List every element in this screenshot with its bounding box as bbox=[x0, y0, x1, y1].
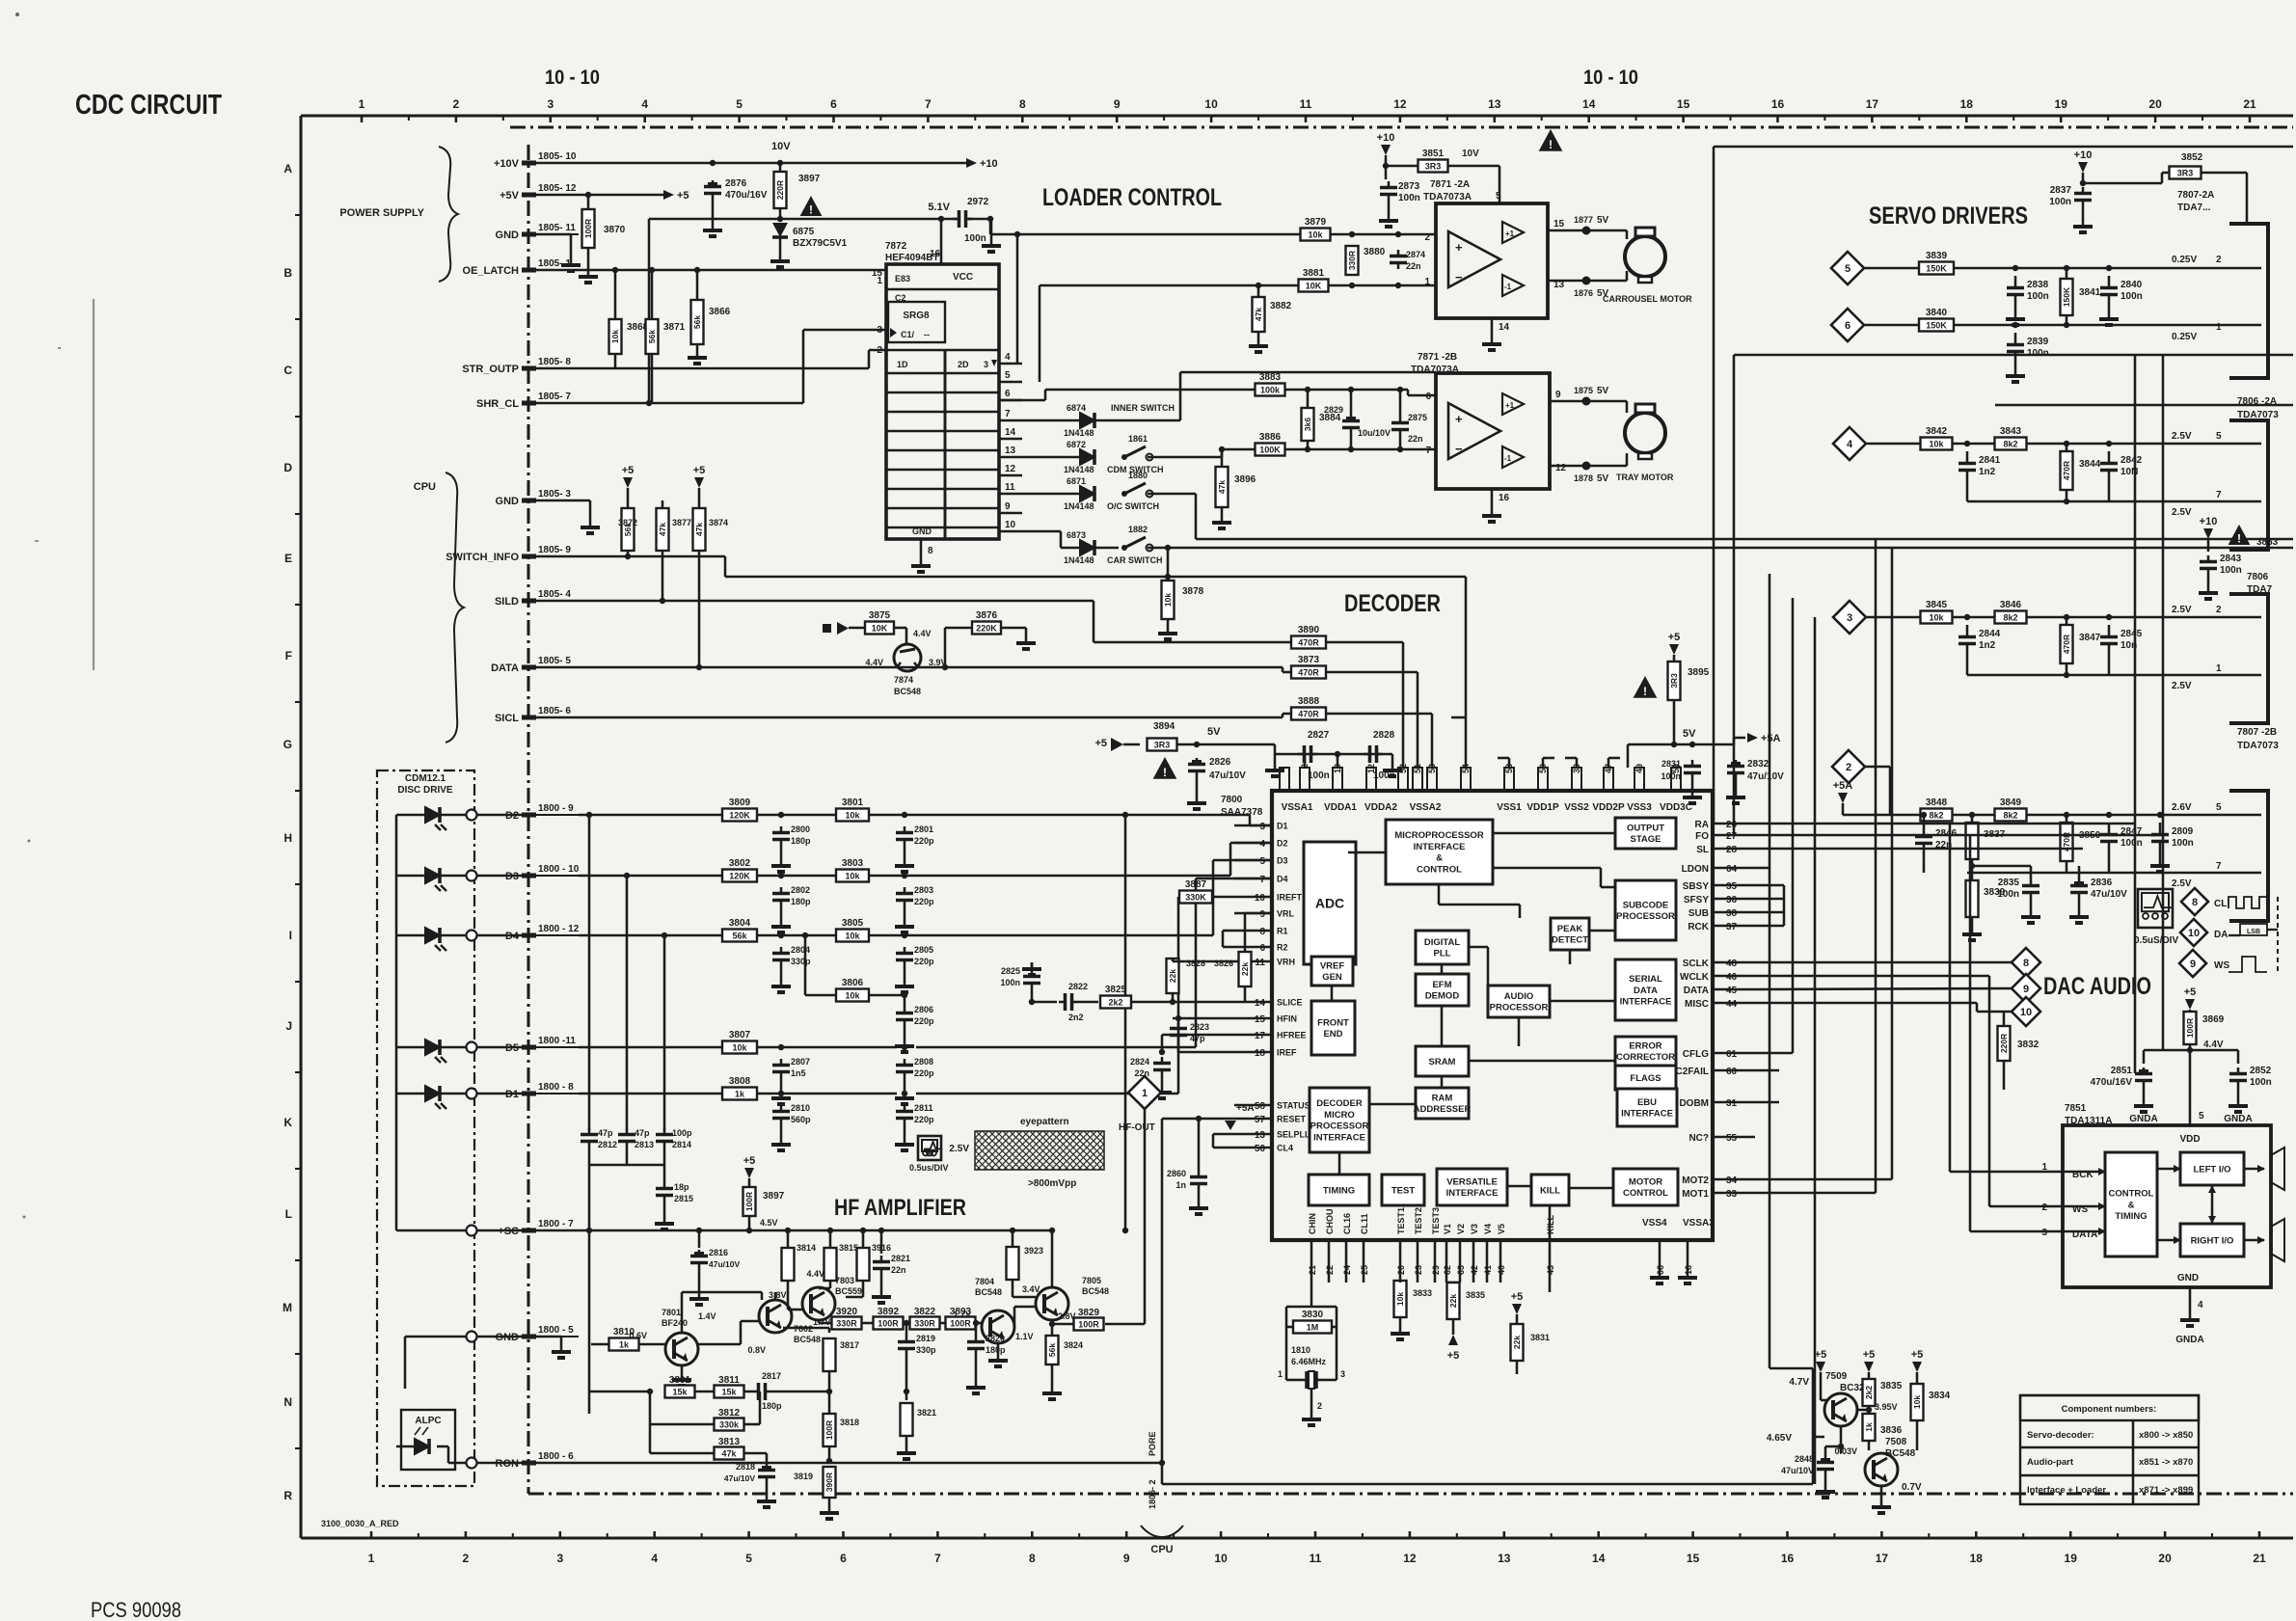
svg-text:100n: 100n bbox=[964, 233, 986, 244]
svg-text:DETECT: DETECT bbox=[1552, 935, 1588, 946]
svg-text:47k: 47k bbox=[658, 523, 667, 536]
svg-text:VCC: VCC bbox=[953, 272, 973, 283]
svg-text:6875: 6875 bbox=[793, 227, 815, 237]
svg-text:VSSA3: VSSA3 bbox=[1683, 1218, 1715, 1229]
svg-text:3R3: 3R3 bbox=[1425, 162, 1442, 172]
svg-text:8k2: 8k2 bbox=[2003, 811, 2017, 821]
svg-text:3892: 3892 bbox=[878, 1307, 900, 1317]
svg-text:2836: 2836 bbox=[2091, 878, 2113, 888]
svg-text:47u/10V: 47u/10V bbox=[1209, 770, 1246, 781]
svg-text:3811: 3811 bbox=[718, 1375, 740, 1386]
svg-text:BC548: BC548 bbox=[894, 687, 921, 696]
svg-text:7806 -2A: 7806 -2A bbox=[2237, 396, 2277, 407]
svg-text:22n: 22n bbox=[891, 1265, 906, 1275]
svg-text:8: 8 bbox=[2023, 958, 2029, 969]
svg-text:1n2: 1n2 bbox=[1979, 640, 1996, 651]
svg-text:1805- 5: 1805- 5 bbox=[538, 656, 571, 666]
svg-text:1n2: 1n2 bbox=[1979, 467, 1996, 477]
svg-text:16: 16 bbox=[1771, 97, 1785, 111]
svg-text:12: 12 bbox=[1005, 464, 1016, 474]
svg-text:SRG8: SRG8 bbox=[903, 311, 930, 321]
svg-text:10 - 10: 10 - 10 bbox=[545, 67, 600, 89]
svg-text:TRAY MOTOR: TRAY MOTOR bbox=[1616, 473, 1674, 482]
svg-text:3873: 3873 bbox=[1298, 655, 1320, 665]
svg-text:3883: 3883 bbox=[1259, 372, 1282, 383]
svg-text:+5: +5 bbox=[622, 465, 635, 476]
svg-text:1810: 1810 bbox=[1291, 1345, 1310, 1355]
svg-text:2: 2 bbox=[463, 1552, 470, 1565]
svg-text:FO: FO bbox=[1695, 831, 1709, 842]
svg-text:16: 16 bbox=[1499, 493, 1510, 503]
svg-text:5: 5 bbox=[736, 97, 743, 111]
svg-text:2843: 2843 bbox=[2220, 554, 2242, 564]
svg-text:35: 35 bbox=[1726, 881, 1738, 892]
svg-text:3: 3 bbox=[556, 1552, 563, 1565]
svg-text:8k2: 8k2 bbox=[2003, 440, 2017, 449]
svg-text:6.46MHz: 6.46MHz bbox=[1291, 1357, 1327, 1366]
svg-text:5: 5 bbox=[1845, 263, 1850, 275]
svg-text:4.4V: 4.4V bbox=[806, 1269, 824, 1279]
svg-text:3866: 3866 bbox=[709, 307, 731, 317]
svg-text:6872: 6872 bbox=[1067, 440, 1086, 449]
svg-text:AUDIO: AUDIO bbox=[1504, 991, 1534, 1002]
svg-text:2972: 2972 bbox=[967, 197, 989, 207]
svg-text:VDD: VDD bbox=[2179, 1134, 2200, 1145]
svg-text:9: 9 bbox=[1123, 1552, 1130, 1565]
svg-text:WS: WS bbox=[2214, 960, 2229, 971]
svg-text:INTERFACE: INTERFACE bbox=[1313, 1132, 1365, 1143]
svg-text:DECODER: DECODER bbox=[1344, 590, 1441, 617]
svg-text:2828: 2828 bbox=[1373, 730, 1395, 741]
svg-text:2844: 2844 bbox=[1979, 629, 2001, 639]
svg-text:53: 53 bbox=[1427, 764, 1437, 773]
svg-text:3812: 3812 bbox=[718, 1408, 741, 1418]
svg-text:14: 14 bbox=[1255, 998, 1266, 1009]
svg-text:18p: 18p bbox=[674, 1182, 689, 1192]
svg-text:−: − bbox=[1455, 270, 1463, 284]
svg-text:34: 34 bbox=[1726, 1175, 1738, 1186]
svg-text:6: 6 bbox=[840, 1552, 847, 1565]
svg-text:2: 2 bbox=[877, 345, 882, 356]
svg-text:1k: 1k bbox=[1864, 1422, 1874, 1432]
svg-text:TIMING: TIMING bbox=[2115, 1211, 2147, 1222]
svg-text:3805: 3805 bbox=[842, 918, 864, 929]
svg-text:120K: 120K bbox=[729, 811, 750, 821]
svg-text:31: 31 bbox=[1726, 1098, 1738, 1109]
svg-text:0.03V: 0.03V bbox=[1834, 1446, 1857, 1456]
svg-text:CL11: CL11 bbox=[1360, 1213, 1369, 1234]
svg-text:2811: 2811 bbox=[914, 1103, 933, 1113]
svg-text:4: 4 bbox=[641, 97, 648, 111]
svg-text:3813: 3813 bbox=[718, 1437, 741, 1447]
svg-text:47u/10V: 47u/10V bbox=[1781, 1466, 1814, 1475]
svg-text:CHOU: CHOU bbox=[1325, 1209, 1335, 1235]
svg-text:3875: 3875 bbox=[869, 610, 891, 621]
svg-text:100R: 100R bbox=[1078, 1320, 1099, 1330]
svg-text:47u/10V: 47u/10V bbox=[724, 1473, 755, 1483]
svg-text:D3: D3 bbox=[1277, 856, 1288, 866]
svg-text:1: 1 bbox=[1278, 1369, 1283, 1379]
svg-text:7: 7 bbox=[934, 1552, 941, 1565]
svg-text:100n: 100n bbox=[2172, 838, 2194, 849]
svg-text:FRONT: FRONT bbox=[1317, 1017, 1349, 1028]
svg-text:330K: 330K bbox=[1185, 893, 1206, 903]
svg-text:+10: +10 bbox=[2200, 516, 2218, 527]
svg-text:2875: 2875 bbox=[1408, 413, 1427, 422]
svg-text:10: 10 bbox=[1005, 520, 1016, 530]
svg-text:&: & bbox=[2128, 1200, 2135, 1210]
svg-text:9: 9 bbox=[1555, 390, 1561, 400]
svg-text:2852: 2852 bbox=[2250, 1066, 2272, 1076]
svg-text:2826: 2826 bbox=[1209, 757, 1231, 768]
svg-text:TDA7073A: TDA7073A bbox=[1423, 192, 1472, 203]
svg-text:3839: 3839 bbox=[1926, 251, 1948, 261]
svg-text:DATA: DATA bbox=[1684, 986, 1709, 996]
svg-text:2805: 2805 bbox=[914, 945, 933, 955]
svg-text:TDA7...: TDA7... bbox=[2177, 203, 2211, 213]
svg-text:3821: 3821 bbox=[917, 1408, 936, 1418]
svg-text:VDD2P: VDD2P bbox=[1592, 802, 1625, 813]
svg-text:100p: 100p bbox=[672, 1128, 692, 1138]
svg-text:5V: 5V bbox=[1683, 728, 1696, 740]
svg-text:1878: 1878 bbox=[1574, 473, 1593, 483]
svg-text:100n: 100n bbox=[1000, 978, 1020, 987]
svg-text:3874: 3874 bbox=[709, 518, 728, 527]
svg-text:H: H bbox=[284, 831, 292, 845]
svg-text:3878: 3878 bbox=[1182, 586, 1204, 597]
svg-text:8: 8 bbox=[1019, 97, 1026, 111]
svg-text:100n: 100n bbox=[2049, 197, 2071, 207]
svg-text:10V: 10V bbox=[1462, 149, 1479, 159]
svg-text:2824: 2824 bbox=[1130, 1057, 1149, 1067]
svg-text:INTERFACE: INTERFACE bbox=[1414, 842, 1466, 852]
svg-text:150K: 150K bbox=[1926, 264, 1947, 274]
svg-text:PROCESSOR: PROCESSOR bbox=[1616, 911, 1675, 922]
svg-text:4.4V: 4.4V bbox=[865, 658, 883, 667]
svg-text:18: 18 bbox=[1970, 1552, 1984, 1565]
svg-text:2.5V: 2.5V bbox=[949, 1144, 969, 1154]
svg-text:330R: 330R bbox=[836, 1319, 857, 1329]
svg-text:7804: 7804 bbox=[975, 1277, 994, 1286]
svg-text:1N4148: 1N4148 bbox=[1064, 428, 1094, 438]
svg-text:8: 8 bbox=[1259, 927, 1265, 937]
svg-text:SILD: SILD bbox=[495, 596, 519, 608]
svg-text:STATUS: STATUS bbox=[1277, 1101, 1310, 1111]
svg-text:100K: 100K bbox=[1259, 446, 1281, 455]
svg-text:R1: R1 bbox=[1277, 927, 1288, 936]
svg-text:27: 27 bbox=[1726, 831, 1738, 842]
svg-text:V3: V3 bbox=[1470, 1224, 1479, 1234]
svg-text:2803: 2803 bbox=[914, 885, 933, 895]
svg-text:5V: 5V bbox=[1597, 473, 1609, 484]
svg-text:D2: D2 bbox=[1277, 839, 1288, 849]
svg-text:EBU: EBU bbox=[1637, 1097, 1657, 1108]
svg-text:180p: 180p bbox=[762, 1401, 782, 1411]
svg-text:4.65V: 4.65V bbox=[1767, 1433, 1792, 1444]
svg-text:IREF: IREF bbox=[1277, 1048, 1297, 1058]
svg-text:2.5V: 2.5V bbox=[2172, 605, 2192, 615]
svg-text:E: E bbox=[284, 552, 292, 565]
svg-text:3R3: 3R3 bbox=[2177, 169, 2194, 178]
svg-text:1.4V: 1.4V bbox=[698, 1311, 716, 1321]
svg-text:CFLG: CFLG bbox=[1683, 1049, 1709, 1060]
svg-text:BC548: BC548 bbox=[1885, 1448, 1916, 1459]
svg-text:DA: DA bbox=[2214, 930, 2228, 940]
svg-text:6: 6 bbox=[1845, 320, 1850, 332]
svg-text:33: 33 bbox=[1726, 1189, 1738, 1200]
svg-text:2807: 2807 bbox=[791, 1057, 810, 1067]
svg-text:3: 3 bbox=[2041, 1228, 2047, 1238]
svg-text:10k: 10k bbox=[845, 991, 860, 1001]
svg-text:+5A: +5A bbox=[1236, 1103, 1255, 1114]
svg-text:4.5V: 4.5V bbox=[760, 1218, 778, 1228]
svg-text:1D: 1D bbox=[897, 360, 908, 369]
svg-text:1805- 3: 1805- 3 bbox=[538, 489, 571, 500]
svg-text:19: 19 bbox=[2055, 97, 2068, 111]
svg-text:7851: 7851 bbox=[2065, 1103, 2087, 1114]
svg-text:10 - 10: 10 - 10 bbox=[1583, 67, 1638, 89]
svg-text:--: -- bbox=[924, 330, 930, 339]
svg-text:10k: 10k bbox=[1395, 1292, 1405, 1306]
svg-text:INTERFACE: INTERFACE bbox=[1621, 1109, 1673, 1120]
svg-text:C1/: C1/ bbox=[901, 330, 915, 339]
svg-text:2D: 2D bbox=[958, 360, 969, 369]
svg-text:49: 49 bbox=[1634, 764, 1644, 773]
svg-text:3.4V: 3.4V bbox=[1022, 1284, 1040, 1294]
svg-text:3897: 3897 bbox=[798, 174, 821, 184]
svg-text:V1: V1 bbox=[1443, 1224, 1452, 1234]
svg-text:+5: +5 bbox=[1911, 1349, 1924, 1361]
svg-text:12: 12 bbox=[1555, 463, 1567, 473]
svg-text:ADC: ADC bbox=[1315, 895, 1344, 910]
svg-text:22n: 22n bbox=[1406, 261, 1421, 271]
svg-text:5: 5 bbox=[1005, 370, 1011, 381]
svg-text:1800 - 6: 1800 - 6 bbox=[538, 1451, 574, 1462]
svg-text:10k: 10k bbox=[845, 932, 860, 941]
svg-text:17: 17 bbox=[1876, 1552, 1889, 1565]
svg-text:BC548: BC548 bbox=[1082, 1286, 1109, 1296]
svg-text:RAM: RAM bbox=[1432, 1093, 1453, 1103]
svg-text:CL: CL bbox=[2214, 899, 2227, 909]
svg-text:2846: 2846 bbox=[1935, 828, 1958, 839]
svg-text:V2: V2 bbox=[1456, 1224, 1466, 1234]
svg-text:SCLK: SCLK bbox=[1683, 959, 1710, 969]
svg-text:1: 1 bbox=[2216, 663, 2222, 674]
svg-text:VSS1: VSS1 bbox=[1497, 802, 1522, 813]
svg-text:CPU: CPU bbox=[414, 481, 436, 493]
svg-text:1875: 1875 bbox=[1574, 386, 1593, 395]
svg-text:2813: 2813 bbox=[635, 1140, 654, 1149]
svg-text:100k: 100k bbox=[1260, 386, 1281, 395]
svg-text:+1: +1 bbox=[1505, 401, 1515, 410]
svg-text:3853: 3853 bbox=[2256, 537, 2279, 548]
svg-text:16: 16 bbox=[1781, 1552, 1795, 1565]
svg-text:22n: 22n bbox=[1134, 1068, 1149, 1078]
svg-text:PROCESSOR: PROCESSOR bbox=[1490, 1003, 1549, 1013]
svg-text:1805- 2: 1805- 2 bbox=[1148, 1479, 1157, 1509]
svg-text:180p: 180p bbox=[791, 897, 811, 906]
svg-text:1: 1 bbox=[2041, 1162, 2047, 1173]
svg-text:3831: 3831 bbox=[1530, 1333, 1550, 1342]
svg-text:+5: +5 bbox=[743, 1155, 756, 1167]
svg-text:100n: 100n bbox=[2250, 1077, 2272, 1088]
svg-text:V5: V5 bbox=[1497, 1224, 1506, 1234]
svg-text:MOTOR: MOTOR bbox=[1629, 1176, 1662, 1187]
svg-text:RCK: RCK bbox=[1688, 922, 1709, 932]
svg-text:0.6V: 0.6V bbox=[629, 1331, 647, 1340]
svg-text:1800 - 7: 1800 - 7 bbox=[538, 1219, 574, 1229]
svg-text:1800 - 10: 1800 - 10 bbox=[538, 864, 580, 875]
svg-text:VRL: VRL bbox=[1277, 909, 1295, 919]
svg-text:ALPC: ALPC bbox=[415, 1416, 441, 1426]
svg-text:3: 3 bbox=[547, 97, 554, 111]
svg-text:3817: 3817 bbox=[840, 1340, 859, 1350]
svg-text:1N4148: 1N4148 bbox=[1064, 501, 1094, 511]
svg-text:3809: 3809 bbox=[729, 797, 751, 808]
svg-text:+5: +5 bbox=[2184, 986, 2197, 998]
svg-text:DATA: DATA bbox=[491, 662, 519, 674]
svg-text:Component numbers:: Component numbers: bbox=[2062, 1404, 2157, 1415]
svg-text:SRAM: SRAM bbox=[1429, 1057, 1456, 1067]
svg-text:SFSY: SFSY bbox=[1684, 895, 1709, 905]
svg-text:CDM12.1: CDM12.1 bbox=[405, 773, 446, 784]
svg-text:8: 8 bbox=[1029, 1552, 1036, 1565]
svg-text:+5: +5 bbox=[1863, 1349, 1876, 1361]
svg-text:54: 54 bbox=[1461, 764, 1471, 773]
svg-text:2: 2 bbox=[2216, 605, 2222, 615]
svg-text:3879: 3879 bbox=[1305, 217, 1327, 228]
svg-text:4: 4 bbox=[1005, 352, 1011, 363]
svg-text:GND: GND bbox=[912, 527, 932, 536]
svg-text:220p: 220p bbox=[914, 1068, 934, 1078]
svg-text:VRH: VRH bbox=[1277, 958, 1295, 967]
svg-text:5.1V: 5.1V bbox=[928, 202, 950, 213]
svg-text:PCS 90098: PCS 90098 bbox=[91, 1598, 181, 1621]
svg-text:GND: GND bbox=[2177, 1273, 2199, 1283]
svg-text:21: 21 bbox=[2253, 1552, 2266, 1565]
svg-text:3R3: 3R3 bbox=[1154, 741, 1171, 750]
svg-text:VERSATILE: VERSATILE bbox=[1446, 1176, 1498, 1187]
svg-text:+5: +5 bbox=[1447, 1350, 1460, 1362]
svg-text:2842: 2842 bbox=[2120, 455, 2143, 466]
svg-text:2821: 2821 bbox=[891, 1254, 910, 1263]
svg-text:CPU: CPU bbox=[1150, 1544, 1173, 1555]
svg-text:3851: 3851 bbox=[1422, 149, 1445, 159]
svg-text:IREFT: IREFT bbox=[1277, 893, 1303, 903]
svg-text:2.5V: 2.5V bbox=[2172, 878, 2192, 889]
svg-text:2812: 2812 bbox=[598, 1140, 617, 1149]
svg-text:RIGHT I/O: RIGHT I/O bbox=[2191, 1235, 2234, 1246]
svg-text:INNER SWITCH: INNER SWITCH bbox=[1111, 403, 1175, 413]
svg-text:2829: 2829 bbox=[1324, 405, 1343, 415]
svg-text:3890: 3890 bbox=[1298, 625, 1320, 635]
svg-text:59: 59 bbox=[1671, 764, 1681, 773]
svg-text:22n: 22n bbox=[1408, 434, 1423, 444]
svg-text:12: 12 bbox=[1366, 764, 1376, 773]
svg-text:SELPLL: SELPLL bbox=[1277, 1130, 1310, 1140]
svg-text:2: 2 bbox=[1317, 1401, 1322, 1411]
svg-text:47p: 47p bbox=[598, 1128, 613, 1138]
svg-text:x851 -> x870: x851 -> x870 bbox=[2139, 1457, 2193, 1468]
svg-text:!: ! bbox=[1163, 766, 1167, 779]
svg-text:2819: 2819 bbox=[916, 1334, 935, 1343]
svg-text:3: 3 bbox=[984, 360, 988, 369]
svg-text:SUBCODE: SUBCODE bbox=[1623, 900, 1669, 910]
svg-text:19: 19 bbox=[2065, 1552, 2078, 1565]
svg-text:1877: 1877 bbox=[1574, 215, 1593, 225]
svg-text:2840: 2840 bbox=[2120, 280, 2143, 290]
svg-text:ADDRESSER: ADDRESSER bbox=[1414, 1104, 1472, 1115]
svg-text:VSSA2: VSSA2 bbox=[1410, 802, 1442, 813]
svg-text:22k: 22k bbox=[1168, 969, 1177, 983]
svg-text:LOADER CONTROL: LOADER CONTROL bbox=[1042, 184, 1222, 211]
svg-text:10k: 10k bbox=[845, 872, 860, 881]
svg-text:+5V: +5V bbox=[500, 190, 520, 202]
svg-text:21: 21 bbox=[2243, 97, 2256, 111]
svg-text:TDA7073: TDA7073 bbox=[2237, 410, 2279, 420]
svg-text:STAGE: STAGE bbox=[1630, 834, 1661, 845]
svg-text:14: 14 bbox=[1592, 1552, 1606, 1565]
svg-text:C2FAIL: C2FAIL bbox=[1676, 1067, 1709, 1077]
svg-text:14: 14 bbox=[1005, 427, 1016, 438]
svg-text:0.8V: 0.8V bbox=[747, 1345, 766, 1355]
svg-text:7800: 7800 bbox=[1221, 795, 1243, 805]
svg-text:KILL: KILL bbox=[1540, 1185, 1560, 1196]
svg-text:+5: +5 bbox=[693, 465, 706, 476]
svg-text:3836: 3836 bbox=[1880, 1425, 1903, 1436]
svg-text:5V: 5V bbox=[1597, 386, 1609, 396]
svg-text:7806: 7806 bbox=[2247, 572, 2269, 582]
svg-text:3845: 3845 bbox=[1926, 600, 1948, 610]
svg-text:13: 13 bbox=[1005, 446, 1016, 456]
svg-text:DECODER: DECODER bbox=[1316, 1098, 1363, 1109]
svg-text:330R: 330R bbox=[914, 1319, 935, 1329]
svg-text:0.7V: 0.7V bbox=[1902, 1482, 1922, 1493]
svg-text:10: 10 bbox=[2020, 1007, 2032, 1018]
svg-text:5V: 5V bbox=[1207, 726, 1221, 738]
svg-text:100R: 100R bbox=[824, 1420, 834, 1440]
svg-text:1800 - 8: 1800 - 8 bbox=[538, 1082, 574, 1093]
svg-text:1805- 9: 1805- 9 bbox=[538, 545, 571, 555]
svg-text:+1: +1 bbox=[1505, 230, 1515, 238]
svg-text:38: 38 bbox=[1726, 908, 1738, 919]
svg-text:9: 9 bbox=[1259, 909, 1265, 920]
svg-text:2808: 2808 bbox=[914, 1057, 933, 1067]
svg-text:TDA7073: TDA7073 bbox=[2237, 741, 2279, 751]
svg-text:2: 2 bbox=[1300, 764, 1310, 769]
svg-text:15: 15 bbox=[1255, 1014, 1266, 1025]
svg-text:2814: 2814 bbox=[672, 1140, 691, 1149]
svg-text:SERIAL: SERIAL bbox=[1629, 974, 1662, 985]
svg-text:CARROUSEL MOTOR: CARROUSEL MOTOR bbox=[1603, 294, 1692, 304]
svg-text:3849: 3849 bbox=[2000, 797, 2022, 808]
svg-text:1800 - 5: 1800 - 5 bbox=[538, 1325, 574, 1336]
svg-text:CHIN: CHIN bbox=[1308, 1213, 1317, 1234]
svg-text:1.7V: 1.7V bbox=[953, 1310, 971, 1319]
svg-text:220p: 220p bbox=[914, 1115, 934, 1124]
svg-text:180p: 180p bbox=[986, 1345, 1006, 1355]
svg-text:CONTROL: CONTROL bbox=[1417, 864, 1462, 875]
svg-text:+5: +5 bbox=[1668, 632, 1681, 643]
svg-text:3815: 3815 bbox=[839, 1243, 858, 1253]
svg-text:470R: 470R bbox=[1298, 668, 1319, 678]
svg-text:15k: 15k bbox=[672, 1388, 688, 1397]
svg-text:28: 28 bbox=[1726, 845, 1738, 855]
svg-text:BZX79C5V1: BZX79C5V1 bbox=[793, 238, 848, 249]
svg-text:5: 5 bbox=[2216, 431, 2222, 442]
svg-text:2835: 2835 bbox=[1998, 878, 2020, 888]
svg-text:VSS2: VSS2 bbox=[1564, 802, 1589, 813]
